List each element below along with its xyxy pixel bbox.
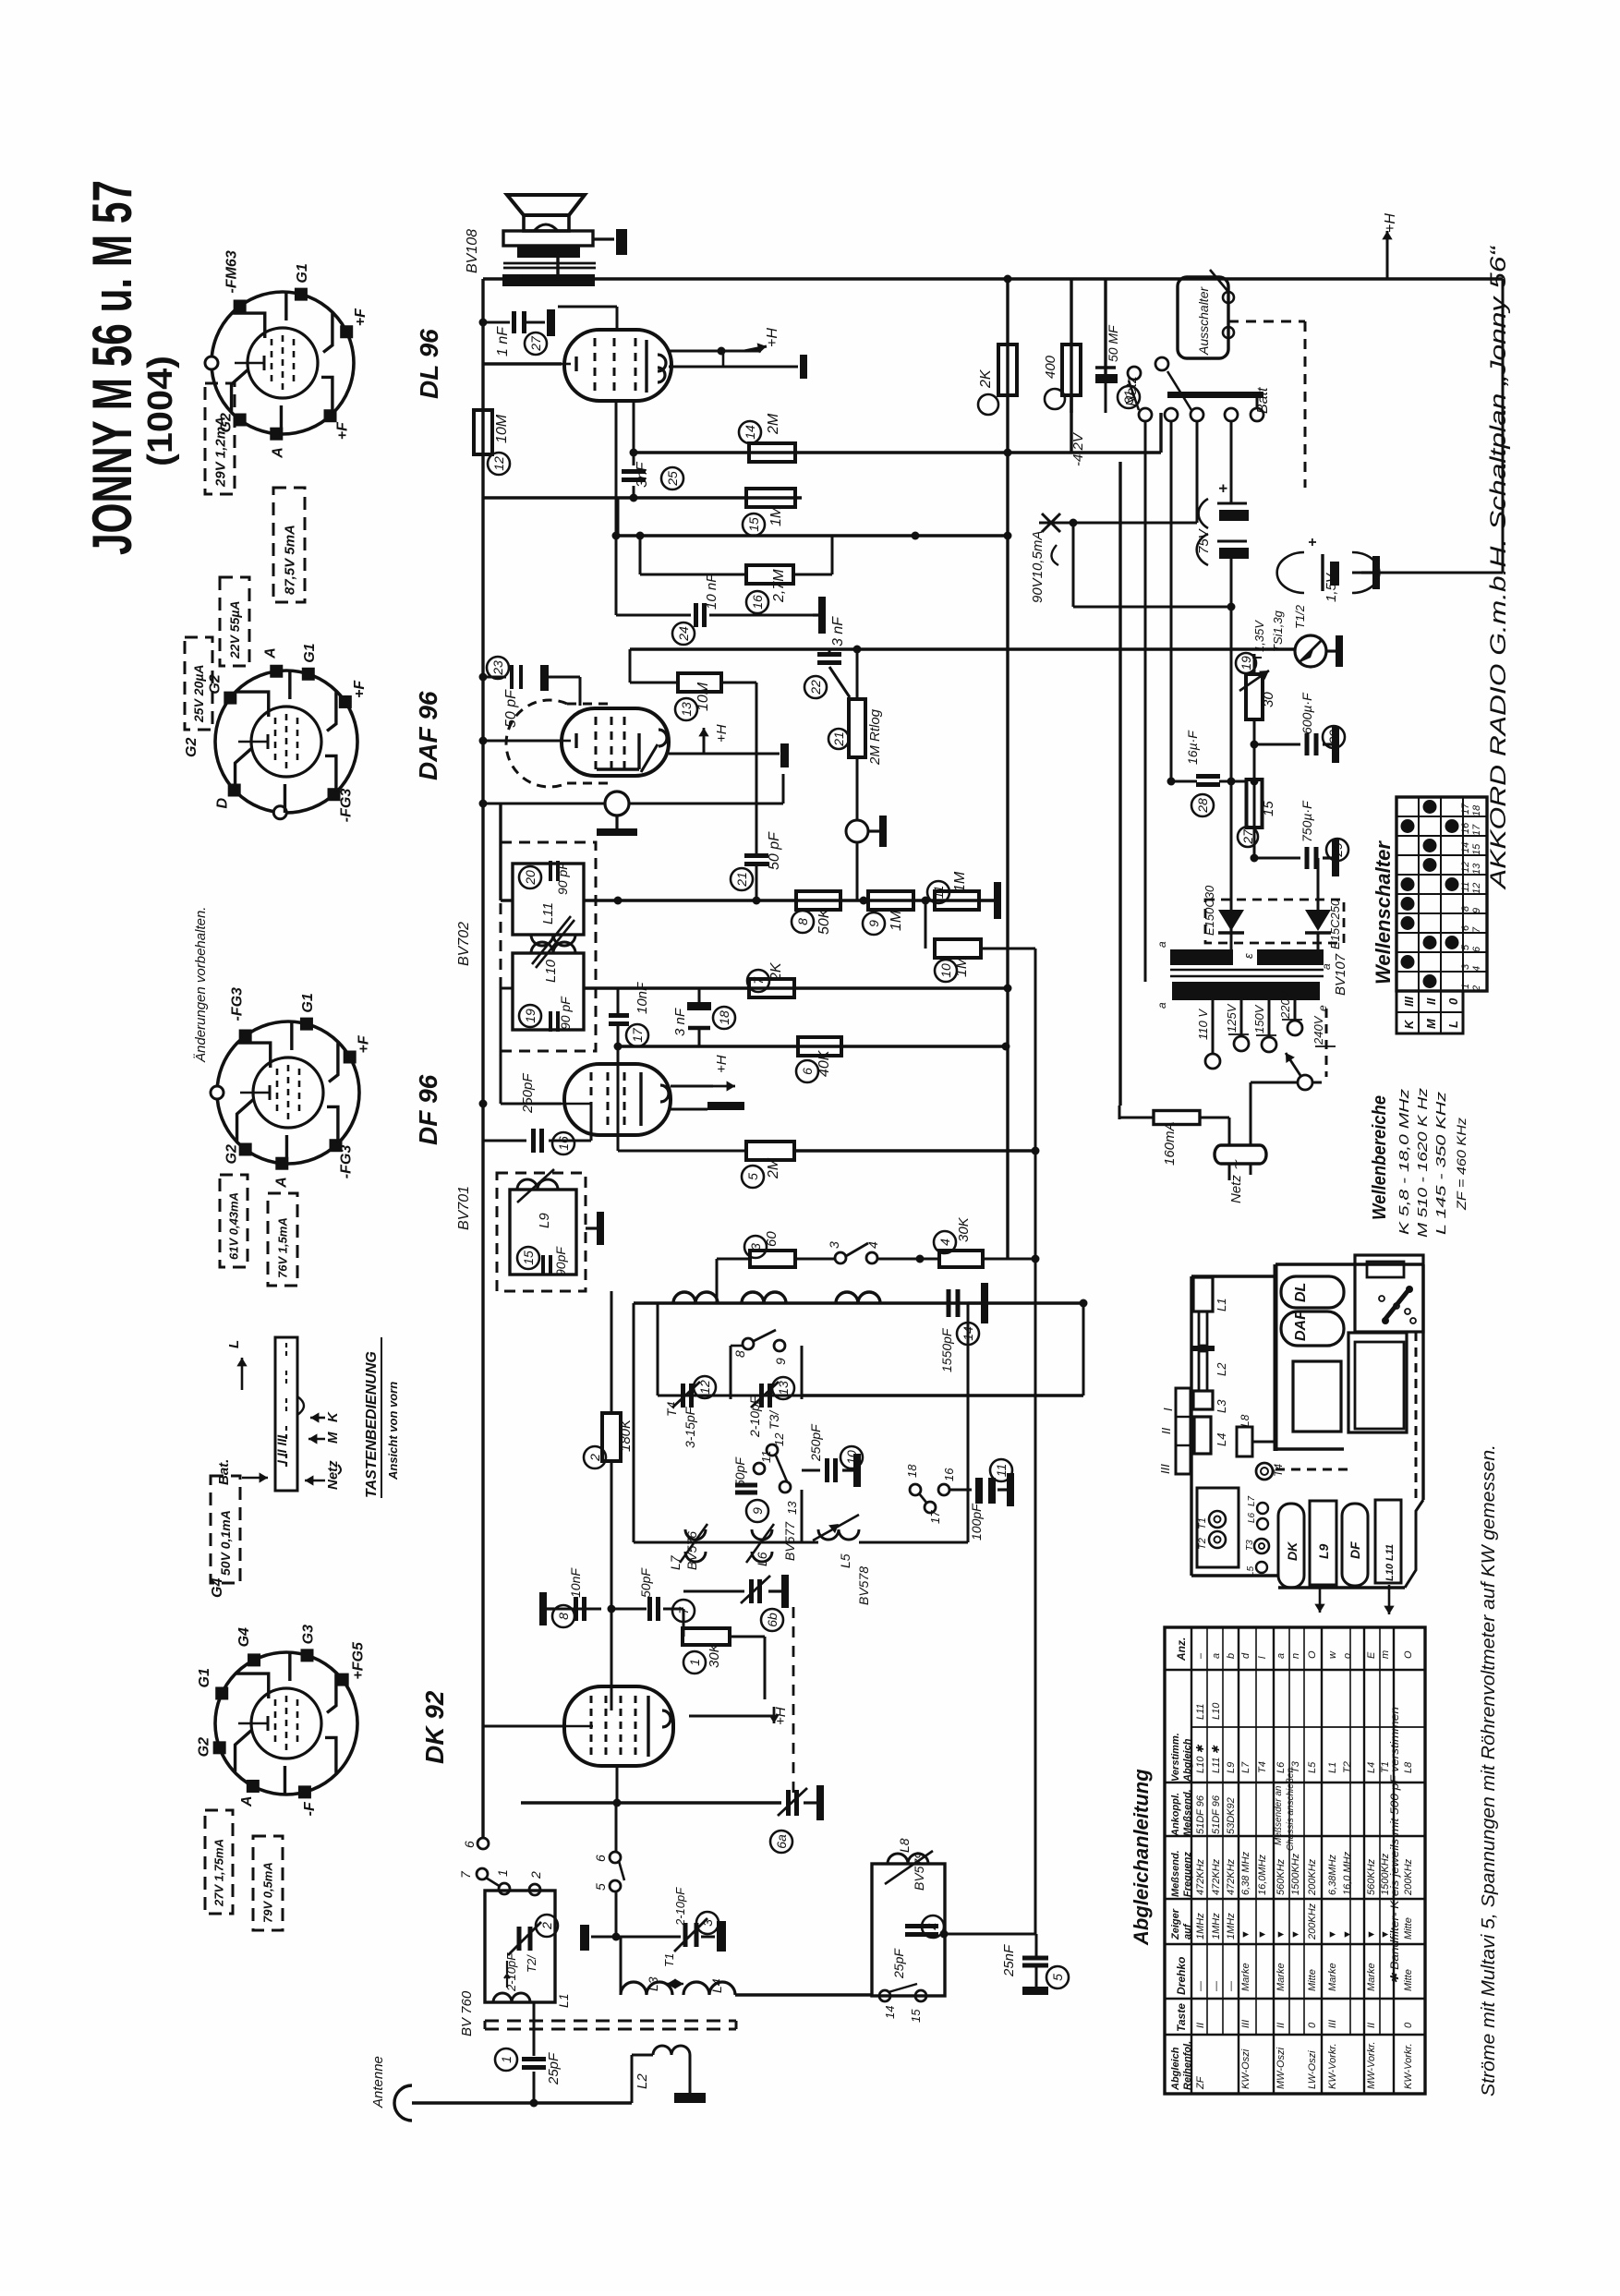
AVC dashed line: [792, 1607, 795, 1795]
Wellenschalter row 11 12 dots: [1401, 877, 1415, 891]
svg-text:3: 3: [748, 1243, 763, 1251]
svg-text:G1: G1: [300, 993, 316, 1012]
svg-text:13: 13: [776, 1381, 791, 1396]
measured-value box 76V 1,5mA: [268, 1193, 297, 1286]
svg-text:18: 18: [717, 1010, 731, 1025]
svg-text:0: 0: [1403, 2022, 1414, 2028]
svg-text:220V: 220V: [1278, 989, 1292, 1020]
Wellenschalter row 14 15 dots: [1423, 839, 1437, 852]
svg-text:▼: ▼: [1366, 1929, 1377, 1940]
svg-text:Netz ∼: Netz ∼: [1228, 1159, 1244, 1203]
socket DL96 pin nc: [205, 356, 218, 369]
svg-text:25pF: 25pF: [891, 1948, 906, 1979]
wire -4,2V corner: [1070, 395, 1072, 453]
chassis dial drive box: [1355, 1255, 1423, 1332]
tube DL96 grid wire: [483, 362, 562, 365]
socket DL96 pin +F: [340, 325, 353, 338]
svg-text:2-10pF: 2-10pF: [504, 1952, 518, 1992]
contacts 5 6 mid: [615, 1803, 618, 1852]
svg-text:I II III: I II III: [274, 1434, 289, 1464]
svg-text:G4: G4: [236, 1627, 252, 1647]
svg-text:1M: 1M: [952, 871, 968, 892]
output transformer BV108 windings: [517, 247, 580, 258]
table column line: [1165, 1898, 1425, 1900]
chassis washer T4: [1256, 1463, 1273, 1480]
svg-text:L4: L4: [1366, 1762, 1377, 1773]
wire vert x686 osc: [633, 1303, 635, 1542]
wire x1173 riser: [1082, 1303, 1085, 1396]
svg-text:7: 7: [458, 1870, 473, 1879]
svg-text:L9: L9: [1316, 1543, 1331, 1559]
svg-text:0: 0: [1307, 2022, 1318, 2028]
wire bias to switch corner: [1159, 413, 1162, 453]
socket DAF96 pin G2: [224, 692, 236, 705]
svg-text:12: 12: [491, 456, 506, 471]
svg-text:11: 11: [1460, 882, 1471, 892]
svg-text:Mitte: Mitte: [1403, 1969, 1414, 1991]
svg-text:T3/: T3/: [767, 1409, 781, 1430]
svg-text:G2: G2: [207, 674, 223, 694]
wire y657: [1073, 606, 1231, 609]
svg-text:ZF: ZF: [1195, 2075, 1206, 2090]
svg-text:BV579: BV579: [912, 1852, 926, 1891]
svg-text:15: 15: [521, 1251, 536, 1265]
svg-text:1: 1: [495, 1869, 510, 1877]
table column line: [1165, 1782, 1425, 1783]
svg-text:2-10pF: 2-10pF: [747, 1395, 762, 1438]
tube socket DL96 outer circle: [212, 292, 354, 434]
trimmer T4 3-15pF (12): [658, 1395, 802, 1397]
svg-text:▼: ▼: [1290, 1929, 1301, 1940]
svg-text:1MHz: 1MHz: [1195, 1913, 1206, 1940]
resistor 60 (3): [717, 1258, 750, 1261]
svg-text:472KHz: 472KHz: [1195, 1858, 1206, 1895]
speaker cone: [507, 195, 585, 215]
svg-text:79V 0,5mA: 79V 0,5mA: [261, 1862, 275, 1923]
shield dashed BV760: [485, 2020, 736, 2023]
svg-text:61V 0,43mA: 61V 0,43mA: [227, 1192, 241, 1260]
wire AVC line 1: [483, 496, 802, 499]
trimmer T3 2-10pF (13): [759, 1384, 764, 1408]
tube DF96 electrodes: [590, 1072, 593, 1126]
svg-text:Frequenz: Frequenz: [1182, 1852, 1193, 1897]
wire DL96 plate to top: [616, 307, 619, 331]
svg-text:40K: 40K: [816, 1049, 832, 1077]
DAF96 +H arrow: [703, 737, 706, 754]
resistor 2M (5): [746, 1142, 794, 1160]
svg-text:G4: G4: [210, 1578, 225, 1598]
svg-text:K 5,8 - 18,0 MHz: K 5,8 - 18,0 MHz: [1396, 1088, 1412, 1235]
DAF96 diode circle: [605, 792, 629, 816]
svg-text:+F: +F: [353, 308, 369, 326]
svg-text:KW-Oszi: KW-Oszi: [1240, 2048, 1251, 2089]
tube socket DK92 inner circle: [251, 1688, 321, 1758]
antenna symbol: [394, 2085, 412, 2121]
Wellenschalter row 8 9 dots: [1401, 897, 1415, 911]
table row line: [1191, 1627, 1192, 2094]
tube socket DF96 outer circle: [217, 1021, 359, 1164]
wire 400-ohm rail: [1070, 279, 1072, 413]
svg-text:BV577: BV577: [782, 1521, 797, 1561]
wire top feed rail: [521, 277, 1503, 280]
measured-value box 22V 55µA: [220, 577, 249, 666]
capacitor 10nF (24): [616, 614, 691, 617]
svg-text:L10: L10: [1211, 1702, 1222, 1720]
diode ground: [615, 816, 618, 828]
wire x1120 drop: [1032, 1147, 1040, 1155]
fuse lamp T1/2 TSi1,3g: [1295, 635, 1326, 667]
wire DAF96 diode line: [483, 803, 605, 805]
svg-text:200KHz: 200KHz: [1403, 1858, 1414, 1896]
capacitor 750uF (29): [1254, 857, 1300, 860]
capacitor 25pF (4): [905, 1924, 938, 1928]
svg-text:T2: T2: [1342, 1761, 1353, 1773]
Abgleichanleitung table frame: [1165, 1627, 1425, 2094]
svg-text:Meßsend.: Meßsend.: [1170, 1850, 1181, 1897]
measured-value box 50V 0,1mA: [211, 1476, 240, 1583]
svg-text:76V 1,5mA: 76V 1,5mA: [276, 1217, 290, 1278]
BV702 secondary box L10: [513, 953, 584, 1030]
svg-text:13: 13: [679, 702, 694, 717]
svg-text:E: E: [1366, 1651, 1377, 1659]
wire y707 filament rail: [630, 647, 1295, 650]
svg-text:2: 2: [528, 1871, 543, 1879]
svg-text:19: 19: [523, 1009, 538, 1023]
capacitor 250pF (16): [483, 1140, 526, 1142]
svg-text:DAF 96: DAF 96: [414, 691, 442, 780]
svg-text:16,0 MHz: 16,0 MHz: [1342, 1851, 1353, 1895]
table row line: [1238, 1627, 1239, 2094]
resistor 1M (15): [746, 489, 795, 507]
svg-text:19: 19: [1239, 656, 1253, 671]
svg-text:O: O: [1403, 1650, 1414, 1659]
svg-text:L3: L3: [1215, 1399, 1228, 1413]
resistor 15 (27): [1247, 779, 1263, 828]
fuse 160mA: [1118, 1106, 1121, 1119]
svg-text:L1: L1: [556, 1993, 571, 2008]
svg-text:T4: T4: [1257, 1761, 1268, 1773]
wire y1511 to x1173: [802, 1394, 1083, 1396]
chassis IF can rect: [1293, 1361, 1341, 1432]
contacts 1 2: [499, 1883, 510, 1894]
capacitor 3nF (25): [633, 453, 635, 465]
svg-text:4: 4: [865, 1241, 880, 1249]
svg-text:2,7M: 2,7M: [771, 569, 787, 603]
resistor 50K (8): [796, 891, 840, 910]
capacitor 1550pF (14): [947, 1289, 951, 1317]
svg-text:180K: 180K: [618, 1419, 634, 1452]
svg-text:9: 9: [773, 1358, 788, 1365]
mains plug: [1215, 1145, 1266, 1164]
svg-text:90V10,5mA: 90V10,5mA: [1030, 531, 1046, 603]
svg-text:Marke: Marke: [1366, 1963, 1377, 1991]
wire DL-DAF coupling: [615, 401, 618, 536]
svg-text:2: 2: [587, 1454, 602, 1462]
capacitor 3nF (22): [828, 649, 831, 652]
socket DF96 pin A: [275, 1157, 288, 1170]
wire to 30K (4): [877, 1258, 939, 1261]
svg-text:L10 ✱: L10 ✱: [1195, 1745, 1206, 1773]
svg-text:+F: +F: [357, 1034, 372, 1053]
dashed battery link: [1228, 320, 1305, 323]
Wellenschalter row 16 17 dots: [1401, 819, 1415, 833]
svg-text:Änderungen vorbehalten.: Änderungen vorbehalten.: [193, 907, 209, 1063]
socket DAF96 pin -FG3: [328, 788, 341, 801]
svg-text:A: A: [273, 1177, 289, 1189]
chassis tube DAF stadium: [1281, 1311, 1344, 1346]
tube DL96 envelope: [564, 330, 671, 401]
svg-text:Marke: Marke: [1275, 1963, 1287, 1991]
trimmer 6a: [786, 1790, 791, 1816]
svg-text:8: 8: [556, 1613, 571, 1620]
resistor 180K (2): [611, 1303, 613, 1413]
svg-text:14: 14: [1460, 842, 1471, 853]
svg-text:A: A: [270, 447, 285, 459]
svg-text:Ansicht von vorn: Ansicht von vorn: [386, 1382, 400, 1480]
svg-text:7: 7: [751, 976, 766, 985]
svg-text:8: 8: [1460, 905, 1471, 912]
capacitor 3nF (18): [698, 988, 701, 1002]
svg-text:Abgleichanleitung: Abgleichanleitung: [1130, 1769, 1153, 1946]
svg-text:30: 30: [1261, 692, 1276, 707]
wire 30 down: [1253, 719, 1256, 858]
BV577 box line: [801, 1490, 804, 1542]
svg-text:MW-Vorkr.: MW-Vorkr.: [1366, 2041, 1377, 2089]
svg-text:9: 9: [750, 1507, 765, 1515]
svg-text:6b: 6b: [765, 1613, 780, 1627]
svg-text:L 145 - 350 KHz: L 145 - 350 KHz: [1433, 1091, 1449, 1235]
svg-text:90pF: 90pF: [553, 1246, 568, 1276]
svg-text:560KHz: 560KHz: [1366, 1858, 1377, 1895]
svg-text:15: 15: [746, 517, 761, 532]
svg-text:A: A: [262, 647, 278, 659]
svg-text:L6: L6: [755, 1552, 769, 1566]
measured-value box 25V 20µA: [185, 637, 212, 730]
svg-text:D: D: [215, 798, 231, 809]
svg-text:2M: 2M: [766, 1157, 781, 1179]
svg-text:I: I: [1161, 1408, 1175, 1411]
chassis knob L8: [1237, 1427, 1252, 1456]
table column line: [1165, 1669, 1425, 1671]
svg-text:6,38MHz: 6,38MHz: [1327, 1854, 1338, 1895]
svg-text:14: 14: [883, 2006, 897, 2019]
svg-text:50V 0,1mA: 50V 0,1mA: [218, 1510, 233, 1576]
svg-text:L10: L10: [543, 959, 559, 983]
potentiometer 2M Rtlog (21a): [856, 653, 859, 699]
svg-text:Reihenfol.: Reihenfol.: [1182, 2041, 1193, 2090]
capacitor 600uF (30): [1254, 743, 1300, 746]
svg-text:+: +: [1215, 484, 1232, 493]
Wellenschalter row 3 4 dots: [1401, 955, 1415, 969]
wire DL96 screen drop: [633, 401, 635, 453]
svg-text:BV578: BV578: [856, 1566, 871, 1605]
resistor 2K (7): [749, 979, 794, 997]
table row line: [1273, 1627, 1275, 2094]
resistor 1M (10): [925, 900, 927, 949]
capacitor 16uF (28): [1196, 774, 1220, 779]
svg-text:240V: 240V: [1312, 1015, 1325, 1045]
svg-text:Ströme mit Multavi 5, Spannung: Ströme mit Multavi 5, Spannungen mit Röh…: [1479, 1444, 1499, 2097]
transformer BV107 secondary winding: [1170, 949, 1233, 965]
tube DK92 electrodes: [590, 1696, 593, 1757]
IF transformer BV701 dashed box: [497, 1173, 586, 1291]
battery 75V: [1230, 482, 1233, 503]
svg-text:472KHz: 472KHz: [1226, 1858, 1237, 1895]
svg-text:51DF 96: 51DF 96: [1195, 1795, 1206, 1834]
svg-text:T2/: T2/: [525, 1954, 538, 1973]
wire osc mid rail: [634, 1541, 818, 1544]
svg-text:(1004): (1004): [141, 356, 180, 466]
svg-text:+F: +F: [352, 680, 368, 698]
svg-text:LW-Oszi: LW-Oszi: [1307, 2050, 1318, 2089]
svg-text:L8: L8: [1403, 1761, 1414, 1773]
coil L2: [631, 2055, 634, 2103]
svg-text:Marke: Marke: [1240, 1963, 1251, 1991]
svg-text:3 nF: 3 nF: [830, 616, 846, 647]
svg-text:DK: DK: [1285, 1541, 1300, 1561]
svg-text:KW-Vorkr.: KW-Vorkr.: [1327, 2043, 1338, 2089]
svg-text:G1: G1: [295, 263, 310, 283]
svg-text:13: 13: [1471, 863, 1482, 875]
socket DK92 pin G4: [248, 1653, 260, 1666]
svg-text:-F: -F: [302, 1801, 318, 1816]
svg-text:2: 2: [1471, 985, 1482, 992]
svg-text:-FG3: -FG3: [230, 987, 246, 1021]
svg-text:5: 5: [593, 1883, 608, 1891]
svg-text:50 MF: 50 MF: [1106, 324, 1120, 362]
svg-text:L9: L9: [1226, 1762, 1237, 1773]
battery 1,5V: [1352, 572, 1503, 574]
wire diode to tube plate: [629, 803, 783, 805]
capacitor 10nF (8): [554, 1608, 601, 1611]
svg-text:3 nF: 3 nF: [672, 1008, 688, 1036]
svg-text:50pF: 50pF: [638, 1567, 653, 1598]
svg-text:16: 16: [942, 1468, 956, 1481]
oscillator coil L6 BV577: [752, 1529, 772, 1562]
svg-text:KW-Vorkr.: KW-Vorkr.: [1403, 2043, 1414, 2089]
svg-text:auf: auf: [1182, 1923, 1193, 1940]
svg-text:6: 6: [800, 1068, 815, 1075]
svg-text:DAF: DAF: [1293, 1310, 1309, 1341]
wire right mid rail: [1034, 949, 1037, 1934]
svg-text:BV702: BV702: [456, 922, 472, 966]
svg-text:2M: 2M: [766, 413, 781, 435]
measured-value box 29V 1,2mA: [205, 383, 235, 494]
svg-text:2K: 2K: [978, 369, 994, 389]
table row line: [1321, 1627, 1323, 2094]
Ausschalter box: [1178, 277, 1228, 358]
svg-text:Wellenschalter: Wellenschalter: [1372, 840, 1395, 985]
svg-text:1: 1: [1460, 984, 1471, 989]
socket DL96 pin +F: [324, 409, 337, 422]
chassis top band outline: [1275, 1263, 1423, 1265]
svg-text:L10 L11: L10 L11: [1384, 1544, 1396, 1581]
svg-text:L8: L8: [1239, 1414, 1251, 1427]
oscillator coil box L8 BV579: [872, 1864, 945, 1996]
svg-text:0: 0: [1446, 997, 1460, 1005]
svg-text:-FG3: -FG3: [339, 1145, 355, 1179]
svg-text:17: 17: [630, 1027, 645, 1043]
svg-text:L3: L3: [646, 1976, 660, 1991]
socket DL96 pin A: [270, 428, 283, 441]
socket DAF96 pin G1: [302, 668, 315, 681]
Wellenschalter row 1 2 dots: [1423, 974, 1437, 988]
svg-text:1M: 1M: [768, 505, 784, 526]
svg-text:25nF: 25nF: [1001, 1944, 1017, 1977]
svg-text:Bat.: Bat.: [216, 1459, 232, 1485]
svg-text:III: III: [1402, 997, 1416, 1007]
svg-text:1550pF: 1550pF: [939, 1327, 954, 1372]
transformer core: [1170, 969, 1324, 972]
switch contacts 3 4: [835, 1252, 846, 1263]
svg-text:Abgleich: Abgleich: [1182, 1738, 1193, 1782]
svg-text:22V 55µA: 22V 55µA: [227, 600, 242, 659]
svg-text:T2: T2: [1197, 1538, 1208, 1550]
L2 ground: [674, 2093, 706, 2103]
svg-text:51DF 96: 51DF 96: [1211, 1795, 1222, 1834]
svg-text:3nF: 3nF: [635, 461, 650, 488]
svg-text:E150C30: E150C30: [1203, 885, 1216, 936]
resistor 30K (1): [683, 1609, 685, 1637]
wire BV702 out to AF line: [501, 987, 513, 990]
socket DL96 internal electrodes: [271, 339, 273, 387]
svg-text:50pF: 50pF: [732, 1456, 747, 1487]
Wellenschalter row 12 13 dots: [1423, 858, 1437, 872]
svg-text:K: K: [1402, 1019, 1416, 1029]
socket DAF96 pin nc: [273, 806, 286, 819]
wire 30K loop to +H: [730, 1636, 765, 1638]
diode E15C250: [1317, 858, 1320, 910]
tap 240V switch: [1298, 1075, 1312, 1090]
wire BV701 bottom to DK anode: [611, 1291, 613, 1303]
svg-text:-FG3: -FG3: [339, 789, 355, 823]
Wellenschalter header cells: [1396, 991, 1463, 1033]
socket DF96 pin nc: [211, 1086, 224, 1099]
antenna coil box L1 with trimmer T2: [485, 1891, 555, 2002]
chassis dial slider L1: [1193, 1277, 1213, 1311]
svg-text:T1: T1: [1197, 1517, 1208, 1529]
tube DK92 envelope: [564, 1686, 673, 1766]
svg-text:b: b: [1226, 1653, 1237, 1659]
chassis heavy divider: [1274, 1264, 1278, 1451]
table row line: [1363, 1627, 1365, 2094]
svg-text:TSi1,3g: TSi1,3g: [1271, 610, 1285, 652]
socket DAF96 pin +F: [339, 695, 352, 708]
svg-text:17: 17: [1471, 824, 1482, 836]
table column line: [1165, 1835, 1425, 1837]
chassis tubes row DK L9 DF L10L11: [1278, 1504, 1304, 1588]
svg-text:24: 24: [676, 626, 691, 642]
svg-text:ε: ε: [1241, 953, 1255, 959]
svg-text:L6: L6: [1247, 1512, 1257, 1523]
socket DF96 pin G2: [239, 1142, 252, 1155]
svg-text:Drehko: Drehko: [1175, 1957, 1188, 1995]
svg-text:a: a: [1155, 941, 1168, 948]
svg-text:2: 2: [539, 1922, 554, 1930]
svg-text:6: 6: [593, 1855, 608, 1862]
socket DF96 internal wiring: [238, 1043, 271, 1068]
svg-text:BV 760: BV 760: [459, 1990, 475, 2036]
wire contacts down: [1144, 421, 1147, 982]
svg-text:10 nF: 10 nF: [704, 574, 719, 610]
svg-text:150V: 150V: [1252, 1004, 1266, 1033]
socket DK92 internal electrodes: [274, 1699, 277, 1747]
svg-text:G2: G2: [184, 738, 199, 757]
Wellenschalter row 6 7 dots: [1401, 916, 1415, 930]
chassis tuning capacitor: [1348, 1333, 1407, 1432]
tube DAF96 electrodes: [595, 717, 598, 770]
svg-text:53DK92: 53DK92: [1226, 1797, 1237, 1834]
